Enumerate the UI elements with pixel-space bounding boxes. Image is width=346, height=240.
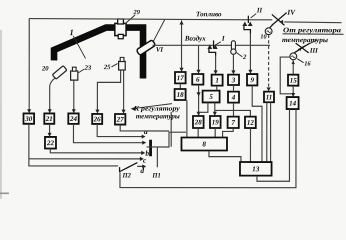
wire sensor 25 to box 27 <box>123 70 125 111</box>
svg-text:17: 17 <box>177 74 185 82</box>
svg-text:9: 9 <box>250 76 254 84</box>
label 16 with leader <box>297 59 311 68</box>
svg-text:11: 11 <box>266 93 273 101</box>
box 24 <box>68 113 78 123</box>
svg-text:П1: П1 <box>151 172 160 179</box>
svg-text:d: d <box>140 166 144 175</box>
label I with leader <box>215 35 225 45</box>
box 8 (amplifier) <box>181 138 227 151</box>
svg-text:15: 15 <box>290 77 298 85</box>
svg-text:28: 28 <box>194 118 203 126</box>
svg-text:23: 23 <box>84 65 92 72</box>
underline <box>283 33 344 35</box>
wire box 6 to box 28 <box>198 85 200 116</box>
box 22 <box>45 137 56 149</box>
svg-text:От регулятора: От регулятора <box>283 26 342 34</box>
wire sensor 20 to box 21 <box>50 78 56 111</box>
wire thermometer 2 to box 3 <box>232 54 234 71</box>
gas duct (thick pipe) with bend <box>54 28 143 79</box>
damper VI on duct outlet <box>136 40 156 56</box>
label 25 with leader <box>103 64 118 72</box>
label 23 with leader <box>78 65 92 73</box>
wire box 5 to box 19 <box>214 103 216 116</box>
label 2 with leader <box>236 53 247 61</box>
box 17 <box>175 72 186 83</box>
line from temperature regulator with left arrow <box>284 21 341 24</box>
wire valve II to box 9 <box>249 33 251 70</box>
svg-text:1: 1 <box>215 77 219 85</box>
box 28 <box>193 116 204 128</box>
svg-text:3: 3 <box>231 76 236 84</box>
box 7 <box>228 117 239 128</box>
svg-text:6: 6 <box>196 76 200 84</box>
wire box 19 to box 8 <box>214 128 216 137</box>
svg-text:24: 24 <box>69 115 78 123</box>
label II with leader <box>251 7 263 17</box>
svg-text:29: 29 <box>133 9 141 16</box>
svg-text:21: 21 <box>45 115 53 123</box>
label 1 (duct) with leader <box>70 28 86 58</box>
svg-text:Воздух: Воздух <box>184 35 206 43</box>
wire box 18 to box 8 <box>186 100 188 137</box>
wire box 28 to box 8 <box>197 128 199 137</box>
svg-text:26: 26 <box>93 115 102 123</box>
svg-text:30: 30 <box>24 115 33 123</box>
wire box 5 left output <box>199 103 208 113</box>
wire box 26 to contact a <box>97 124 142 137</box>
svg-text:7: 7 <box>231 119 235 127</box>
wire box 9 to box 13 <box>252 86 262 162</box>
svg-text:температуры: температуры <box>282 36 328 44</box>
wire box 12 to box 13 <box>249 128 251 162</box>
switch P2 contact and arm <box>119 167 121 172</box>
wire box 27 to box 8 <box>120 125 169 131</box>
valve II on fuel line <box>242 16 252 34</box>
svg-text:12: 12 <box>247 119 255 127</box>
box 6 <box>192 74 203 85</box>
box 11 <box>264 92 274 103</box>
wire valve IV to pressure gauge 10 <box>270 25 273 28</box>
wire box 30 down to switch P2 <box>29 124 118 166</box>
air line (Vozdukh) <box>153 44 270 46</box>
svg-text:4: 4 <box>231 94 236 102</box>
wire arm to contact d <box>137 165 143 167</box>
wire box 14 to switch P2 feedback <box>120 109 296 187</box>
sensor 20 (angled) <box>52 66 67 80</box>
elbow wire to gauge 16 <box>280 57 291 94</box>
scan edge bottom <box>0 192 9 194</box>
wire box 3 to box 4 <box>233 85 235 91</box>
svg-text:10: 10 <box>260 33 266 40</box>
wire fuel line down to box 30 <box>28 19 30 111</box>
svg-text:25: 25 <box>103 64 111 71</box>
svg-text:VI: VI <box>156 47 164 54</box>
label 29 with leader <box>125 9 141 24</box>
scan edge left <box>0 30 2 199</box>
svg-text:П2: П2 <box>122 172 132 179</box>
svg-text:27: 27 <box>116 116 125 124</box>
valve I on air line <box>207 40 217 55</box>
box 13 (actuator) <box>240 162 272 176</box>
gauge 10 (circle) <box>265 28 272 35</box>
svg-text:II: II <box>256 7 263 14</box>
box 12 <box>245 117 256 128</box>
valve IV (cross) on fuel line <box>272 13 287 26</box>
wire box 4 to box 7 <box>232 103 234 116</box>
wire box 8 to box 13 <box>209 151 241 162</box>
leader arrow from text to valve III <box>302 40 317 47</box>
sensor 25 <box>119 57 126 70</box>
svg-text:III: III <box>309 48 318 55</box>
box 3 <box>228 75 239 85</box>
sensor 29 on duct <box>115 19 126 39</box>
svg-text:2: 2 <box>242 54 247 61</box>
dashed wire gauge 10 to box 11 <box>268 35 270 88</box>
wire from box 18 side to bar <box>170 112 172 147</box>
svg-text:16: 16 <box>304 60 311 67</box>
wire box 21 to box 22 <box>49 124 51 134</box>
box 26 <box>92 114 102 124</box>
wire box 1 to box 5 <box>216 86 218 91</box>
svg-text:8: 8 <box>202 140 206 148</box>
box 5 <box>203 91 220 103</box>
svg-text:IV: IV <box>286 9 296 17</box>
svg-text:5: 5 <box>209 93 213 101</box>
wire common bar to box 8 <box>147 132 186 147</box>
wire gauge 16 to box 15 with up arrow <box>292 60 294 74</box>
box 9 <box>247 74 257 85</box>
box 19 <box>210 116 221 128</box>
wire box 11 to box 13 (right) <box>270 102 272 161</box>
svg-text:14: 14 <box>289 99 297 107</box>
svg-text:Топливо: Топливо <box>196 11 222 18</box>
sensor 23 <box>71 67 78 80</box>
arrow to temperature regulator <box>136 104 172 109</box>
box 27 <box>115 114 125 125</box>
fuel branch node to box 17 <box>181 20 183 71</box>
box 4 <box>228 92 239 103</box>
svg-text:18: 18 <box>177 91 185 99</box>
wire box 7 to box 8 <box>223 128 234 137</box>
wire sensor 25 to box 26 <box>97 70 120 111</box>
box 21 <box>44 113 54 123</box>
wire box 22 to contact b <box>50 149 142 153</box>
wire to contact c <box>29 158 141 160</box>
box 30 <box>23 113 34 123</box>
valve III (cross) <box>294 43 309 53</box>
wire air line to box 6 <box>198 45 200 71</box>
selector common bar P1 <box>149 140 152 156</box>
svg-text:температуры: температуры <box>136 112 180 120</box>
wire box 13 to box 14 feedback <box>257 109 290 181</box>
wire branch to box 12 <box>215 110 251 116</box>
wire box 17 to box 18 <box>179 84 181 89</box>
wire box 24 to selector <box>73 124 143 143</box>
thermometer 2 on air line <box>231 41 236 55</box>
wire pole down <box>156 147 158 167</box>
svg-text:19: 19 <box>212 118 220 126</box>
box 1 <box>212 75 223 86</box>
svg-text:I: I <box>221 35 225 43</box>
svg-text:1: 1 <box>70 28 74 37</box>
wire box 11 to box 13 (left) <box>266 102 268 161</box>
box 15 <box>288 75 298 86</box>
wire valve I to box 1 <box>215 56 217 71</box>
fuel line (Toplivo) <box>29 19 272 20</box>
svg-text:22: 22 <box>46 139 55 147</box>
svg-text:20: 20 <box>41 66 49 73</box>
svg-text:13: 13 <box>252 165 260 173</box>
wire sensor 23 to box 24 <box>73 80 75 110</box>
box 18 <box>175 89 186 100</box>
wire from damper VI up to fuel line <box>153 19 165 41</box>
box 14 <box>287 97 299 109</box>
wire box 15 to box 14 <box>292 86 294 95</box>
gauge 16 (circle) <box>290 53 297 60</box>
